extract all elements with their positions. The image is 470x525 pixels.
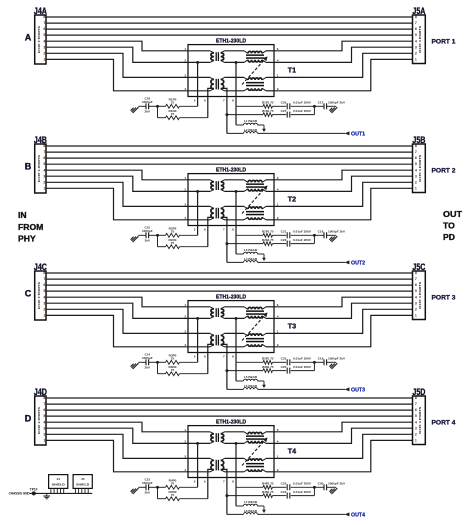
svg-text:1: 1 — [415, 439, 417, 443]
node OUT1 (off-page arrow) — [345, 131, 366, 137]
node junction C15/R2P0/R2N0 — [156, 234, 159, 237]
svg-text:J4C: J4C — [34, 262, 48, 272]
label CHASSIS GND — [9, 491, 31, 495]
common-mode choke T3a — [210, 307, 224, 319]
wire center-tap pin8 to R3P1 / L5 — [235, 317, 238, 381]
ground (earth) left of C16 — [131, 107, 139, 113]
connector J5 SHIELD — [73, 475, 92, 494]
ground (earth) left of C14 — [131, 363, 139, 369]
svg-text:C27: C27 — [281, 109, 287, 113]
common-mode choke T2b — [210, 206, 224, 219]
wire J4D pin 4 to T4 primary (pin 1) — [46, 422, 188, 432]
svg-text:RJ45 4 PORTS: RJ45 4 PORTS — [37, 282, 41, 309]
pin numbers J4C 8..1 — [43, 271, 45, 317]
svg-text:R1P1 75: R1P1 75 — [262, 101, 274, 105]
wire T1 secondary (pin 6) to J5A pin 2 — [274, 53, 413, 77]
transformer winding T3 pair 1 — [244, 307, 266, 319]
svg-text:3: 3 — [43, 426, 45, 430]
connector J4A (RJ45 A side from PHY) — [34, 6, 48, 64]
svg-text:0.01uF 250V: 0.01uF 250V — [293, 109, 312, 113]
connector J4C (RJ45 C side from PHY) — [34, 262, 48, 320]
common-mode choke T1a — [210, 51, 224, 63]
svg-text:L5 BEAD: L5 BEAD — [244, 375, 258, 379]
wire T2 secondary (pin 8) to J5B pin 4 — [274, 170, 413, 180]
connector J4B (RJ45 B side from PHY) — [34, 135, 47, 193]
wire T2 internal row 1 — [188, 179, 274, 181]
svg-text:SHIELD: SHIELD — [76, 482, 90, 486]
svg-text:C21: C21 — [281, 230, 287, 234]
svg-text:1: 1 — [277, 330, 279, 334]
svg-text:7: 7 — [43, 277, 45, 281]
svg-text:4: 4 — [43, 420, 45, 424]
svg-text:C25: C25 — [281, 365, 287, 369]
node junction C23/C24/C30 — [313, 486, 316, 489]
ground (chassis) — [43, 493, 50, 498]
svg-text:5: 5 — [194, 98, 196, 102]
svg-text:9: 9 — [277, 87, 279, 91]
svg-text:CHASSIS GND: CHASSIS GND — [9, 491, 31, 495]
label T2 — [288, 194, 296, 203]
wire T1 secondary (pin 5) to J5A pin 1 — [274, 59, 413, 90]
svg-text:OUT: OUT — [443, 209, 463, 219]
wire J4C pin 1 to T3 primary (pin 4) — [46, 315, 188, 346]
resistor R4P0 75 — [158, 479, 198, 490]
svg-text:1: 1 — [43, 314, 45, 318]
pin numbers J4B 8..1 — [43, 144, 45, 190]
wire center-tap pin6 to R1N0 — [208, 88, 214, 117]
pin numbers T1 right edge — [277, 47, 279, 91]
coupling arrow T1 (dashed) — [242, 57, 268, 85]
svg-text:75: 75 — [171, 482, 175, 486]
svg-text:75: 75 — [171, 493, 175, 497]
svg-text:OUT1: OUT1 — [351, 131, 365, 137]
capacitor C26 0.01uF 250V — [273, 235, 315, 246]
pin numbers T4 right edge — [277, 428, 279, 472]
capacitor C25 0.01uF 250V — [273, 362, 315, 373]
svg-text:C20: C20 — [281, 101, 287, 105]
ground arrow after L3 — [262, 254, 266, 261]
coupling arrow T4 (dashed) — [242, 438, 268, 466]
pin numbers J5C 8..1 — [415, 271, 417, 317]
wire center-tap pin6 to R4N0 — [208, 469, 214, 498]
wire T1 secondary (pin 7) to J5A pin 3 — [274, 47, 413, 62]
wire center-tap pin7 to R4N1 / L8 — [221, 469, 229, 514]
svg-text:ETH1-230LD: ETH1-230LD — [216, 419, 246, 425]
node junction C16/R1P0/R1N0 — [156, 105, 159, 108]
svg-text:9: 9 — [277, 343, 279, 347]
svg-text:7: 7 — [415, 21, 417, 25]
svg-text:3: 3 — [43, 301, 45, 305]
wire T4 secondary (pin 8) to J5D pin 4 — [274, 422, 413, 432]
svg-text:1: 1 — [184, 303, 186, 307]
svg-text:75: 75 — [171, 230, 175, 234]
svg-text:4: 4 — [184, 343, 186, 347]
wire center-tap pin5 to R1P0 — [196, 61, 199, 106]
svg-text:2: 2 — [43, 432, 45, 436]
wire J4D pin 7 to J5D pin 7 — [46, 403, 413, 405]
transformer winding T2 pair 2 — [244, 206, 266, 219]
transformer winding T1 pair 2 — [244, 77, 266, 90]
node junction C14/R3P0/R3N0 — [156, 361, 159, 364]
ground arrow after L5 — [262, 381, 266, 388]
pin numbers T4 left edge — [184, 428, 186, 472]
svg-text:R3P1 75: R3P1 75 — [262, 357, 274, 361]
wire J4A pin 6 to J5A pin 6 — [46, 28, 413, 30]
common-mode choke T3b — [210, 333, 224, 346]
svg-text:1: 1 — [277, 74, 279, 78]
svg-text:2: 2 — [184, 440, 186, 444]
svg-text:1000pF 2kV: 1000pF 2kV — [328, 482, 346, 486]
pin numbers T3 left edge — [184, 303, 186, 347]
svg-text:9: 9 — [277, 216, 279, 220]
wire T1 secondary (pin 8) to J5A pin 4 — [274, 41, 413, 51]
connector J5B (RJ45 B side to PD) — [412, 135, 425, 193]
wire center-tap pin7 to R3N1 / L6 — [221, 344, 229, 389]
capacitor C22 0.01uF 250V — [273, 357, 315, 366]
wire T4 internal row 2 — [188, 442, 274, 444]
svg-text:4: 4 — [184, 216, 186, 220]
svg-text:J4A: J4A — [34, 6, 48, 16]
svg-text:D: D — [25, 413, 32, 423]
pin numbers T1 bottom edge — [194, 98, 234, 102]
wire J4D pin 1 to T4 primary (pin 4) — [46, 440, 188, 471]
capacitor C27 0.01uF 250V — [273, 106, 315, 117]
wire center-tap pin8 to R1P1 / L1 — [235, 61, 238, 125]
capacitor C16 1000pF 2kV — [138, 97, 157, 114]
wire T3 secondary (pin 7) to J5C pin 3 — [274, 303, 413, 318]
capacitor C23 0.01uF 250V — [273, 482, 315, 491]
svg-text:6: 6 — [43, 283, 45, 287]
label T3 — [288, 321, 296, 330]
svg-text:6: 6 — [43, 408, 45, 412]
capacitor C20 0.01uF 250V — [273, 101, 315, 110]
pin numbers T3 right edge — [277, 303, 279, 347]
svg-text:C18: C18 — [318, 230, 324, 234]
wire J4D pin 8 to J5D pin 8 — [46, 397, 413, 399]
svg-text:4: 4 — [415, 420, 417, 424]
svg-text:8: 8 — [415, 144, 417, 148]
svg-text:0.01uF 250V: 0.01uF 250V — [293, 482, 312, 486]
wire J4B pin 4 to T2 primary (pin 1) — [46, 170, 188, 180]
svg-text:5: 5 — [415, 33, 417, 37]
svg-text:2kV: 2kV — [145, 239, 151, 243]
svg-text:RJ45 4 PORTS: RJ45 4 PORTS — [37, 155, 41, 182]
wire T1 internal row 1 — [188, 50, 274, 52]
svg-text:7: 7 — [43, 402, 45, 406]
pin numbers T4 bottom edge — [194, 479, 234, 483]
svg-text:2: 2 — [415, 307, 417, 311]
resistor R2N1 75 — [227, 238, 274, 246]
svg-text:2: 2 — [184, 188, 186, 192]
coupling arrow T2 (dashed) — [242, 186, 268, 214]
svg-text:L3 BEAD: L3 BEAD — [244, 248, 258, 252]
svg-text:ETH1-230LD: ETH1-230LD — [216, 38, 246, 44]
capacitor C19 1000pF 2kV — [314, 357, 346, 366]
svg-text:3: 3 — [415, 426, 417, 430]
svg-text:4: 4 — [415, 39, 417, 43]
label PORT 1 — [432, 39, 456, 46]
svg-text:L1 BEAD: L1 BEAD — [244, 119, 258, 123]
svg-text:7: 7 — [43, 150, 45, 154]
svg-text:1: 1 — [43, 439, 45, 443]
svg-text:RJ45 4 PORTS: RJ45 4 PORTS — [418, 155, 422, 182]
svg-text:1: 1 — [184, 428, 186, 432]
wire T3 secondary (pin 5) to J5C pin 1 — [274, 315, 413, 346]
svg-text:5: 5 — [194, 227, 196, 231]
transformer module T1 box ETH1-230LD — [188, 38, 274, 96]
wire T2 secondary (pin 5) to J5B pin 1 — [274, 188, 413, 220]
svg-text:T4: T4 — [288, 446, 296, 455]
wire chassis gnd bus — [30, 492, 93, 494]
wire J4D pin 3 to T4 primary (pin 2) — [46, 428, 188, 443]
svg-text:OUT3: OUT3 — [351, 387, 365, 393]
wire T3 internal row 2 — [188, 317, 274, 319]
label T4 — [288, 446, 296, 455]
svg-text:6: 6 — [204, 98, 206, 102]
wire center-tap pin7 to R1N1 / L2 — [221, 88, 229, 133]
svg-text:ETH1-230LD: ETH1-230LD — [216, 167, 246, 173]
resistor R3N0 75 — [158, 362, 208, 375]
svg-text:75: 75 — [171, 357, 175, 361]
svg-text:7: 7 — [415, 150, 417, 154]
transformer module T2 box ETH1-230LD — [188, 167, 274, 225]
wire J4A pin 7 to J5A pin 7 — [46, 22, 413, 24]
resistor R1N0 75 — [158, 106, 208, 119]
label PORT 2 — [432, 168, 456, 175]
test point TP10 — [30, 487, 38, 495]
node OUT4 (off-page arrow) — [345, 512, 366, 518]
svg-text:1000pF: 1000pF — [142, 481, 153, 485]
svg-text:3: 3 — [184, 330, 186, 334]
wire center-tap pin7 to R2N1 / L4 — [221, 217, 229, 262]
svg-text:T2: T2 — [288, 194, 296, 203]
svg-text:6: 6 — [415, 27, 417, 31]
svg-text:RJ45 4 PORTS: RJ45 4 PORTS — [418, 26, 422, 53]
connector J5C (RJ45 C side to PD) — [412, 262, 426, 320]
svg-text:A: A — [25, 32, 32, 42]
svg-text:5: 5 — [43, 289, 45, 293]
svg-text:4: 4 — [184, 468, 186, 472]
resistor R2P0 75 — [158, 227, 198, 238]
wire J4D pin 6 to J5D pin 6 — [46, 409, 413, 411]
wire J4C pin 5 to J5C pin 5 — [46, 290, 413, 292]
svg-text:1: 1 — [277, 455, 279, 459]
svg-text:R1N1 75: R1N1 75 — [262, 109, 274, 113]
ground (earth) left of C15 — [131, 236, 139, 242]
resistor R4N0 75 — [158, 487, 208, 500]
svg-text:1: 1 — [277, 203, 279, 207]
wire center-tap pin8 to R2P1 / L3 — [235, 190, 238, 254]
connector J5D (RJ45 D side to PD) — [412, 387, 425, 445]
svg-text:R3N1 75: R3N1 75 — [262, 365, 274, 369]
wire T3 internal row 1 — [188, 306, 274, 308]
ground arrow after L7 — [262, 506, 266, 513]
wire J4A pin 5 to J5A pin 5 — [46, 34, 413, 36]
svg-text:PORT 1: PORT 1 — [432, 39, 456, 46]
wire J4C pin 3 to T3 primary (pin 2) — [46, 303, 188, 318]
svg-text:8: 8 — [232, 227, 234, 231]
wire J4B pin 1 to T2 primary (pin 4) — [46, 188, 188, 220]
wire J4D pin 2 to T4 primary (pin 3) — [46, 434, 188, 458]
svg-text:8: 8 — [43, 271, 45, 275]
label section A — [25, 32, 32, 42]
resistor R4P1 75 — [236, 482, 274, 490]
connector J5A (RJ45 A side to PD) — [412, 6, 426, 64]
svg-text:4: 4 — [277, 59, 279, 63]
svg-text:4: 4 — [43, 295, 45, 299]
capacitor C15 1000pF 2kV — [138, 226, 157, 243]
svg-text:8: 8 — [43, 15, 45, 19]
svg-text:8: 8 — [232, 354, 234, 358]
svg-text:3: 3 — [184, 203, 186, 207]
svg-text:J5: J5 — [81, 477, 85, 481]
svg-text:6: 6 — [277, 176, 279, 180]
capacitor C14 1000pF 2kV — [138, 353, 157, 370]
wire J4A pin 4 to T1 primary (pin 1) — [46, 41, 188, 51]
wire T1 internal row 4 — [188, 90, 274, 92]
svg-text:4: 4 — [415, 295, 417, 299]
svg-text:6: 6 — [415, 283, 417, 287]
svg-text:6: 6 — [415, 156, 417, 160]
wire center-tap pin5 to R4P0 — [196, 442, 199, 487]
svg-text:8: 8 — [415, 396, 417, 400]
wire T1 internal row 2 — [188, 61, 274, 63]
svg-text:1: 1 — [184, 176, 186, 180]
wire T4 secondary (pin 5) to J5D pin 1 — [274, 440, 413, 471]
svg-text:L2 BEAD: L2 BEAD — [244, 128, 258, 132]
svg-text:7: 7 — [223, 98, 225, 102]
svg-text:R4P1 75: R4P1 75 — [262, 482, 274, 486]
svg-text:6: 6 — [204, 227, 206, 231]
svg-text:RJ45 4 PORTS: RJ45 4 PORTS — [418, 282, 422, 309]
ground (earth) left of C13 — [131, 488, 139, 494]
svg-text:3: 3 — [184, 455, 186, 459]
svg-text:C26: C26 — [281, 238, 287, 242]
node OUT3 (off-page arrow) — [345, 387, 366, 393]
svg-text:L8 BEAD: L8 BEAD — [244, 509, 258, 513]
svg-text:8: 8 — [232, 98, 234, 102]
transformer winding T1 pair 1 — [244, 51, 266, 63]
capacitor C21 0.01uF 250V — [273, 230, 315, 239]
svg-text:8: 8 — [415, 271, 417, 275]
svg-text:1: 1 — [43, 58, 45, 62]
svg-text:RJ45 4 PORTS: RJ45 4 PORTS — [37, 26, 41, 53]
svg-text:6: 6 — [204, 479, 206, 483]
svg-text:1000pF 2kV: 1000pF 2kV — [328, 101, 346, 105]
wire T3 internal row 4 — [188, 346, 274, 348]
svg-text:4: 4 — [277, 188, 279, 192]
svg-text:1: 1 — [184, 47, 186, 51]
svg-text:7: 7 — [223, 479, 225, 483]
svg-text:J4: J4 — [56, 477, 60, 481]
wire J4B pin 2 to T2 primary (pin 3) — [46, 182, 188, 206]
svg-text:2: 2 — [415, 51, 417, 55]
wire J4C pin 4 to T3 primary (pin 1) — [46, 297, 188, 307]
wire T3 secondary (pin 6) to J5C pin 2 — [274, 309, 413, 333]
svg-text:IN: IN — [18, 210, 27, 220]
ground (earth) after C30 — [329, 488, 337, 494]
svg-text:R2N1 75: R2N1 75 — [262, 238, 274, 242]
common-mode choke T1b — [210, 77, 224, 90]
svg-text:FROM: FROM — [18, 222, 43, 232]
wire J4C pin 8 to J5C pin 8 — [46, 272, 413, 274]
wire center-tap pin6 to R2N0 — [208, 217, 214, 246]
svg-text:3: 3 — [43, 45, 45, 49]
svg-text:2: 2 — [184, 315, 186, 319]
svg-text:2kV: 2kV — [145, 491, 151, 495]
svg-text:0.01uF 250V: 0.01uF 250V — [293, 238, 312, 242]
svg-text:6: 6 — [204, 354, 206, 358]
ground (earth) after C19 — [329, 363, 337, 369]
transformer module T3 box ETH1-230LD — [188, 294, 274, 352]
svg-text:6: 6 — [43, 27, 45, 31]
label PORT 3 — [432, 295, 456, 302]
svg-text:0.01uF 250V: 0.01uF 250V — [293, 230, 312, 234]
wire T3 secondary (pin 8) to J5C pin 4 — [274, 297, 413, 307]
svg-text:4: 4 — [184, 87, 186, 91]
inductor L4 BEAD — [227, 257, 345, 263]
svg-text:OUT4: OUT4 — [351, 512, 365, 518]
svg-text:9: 9 — [277, 468, 279, 472]
svg-text:1000pF: 1000pF — [142, 356, 153, 360]
node junction C13/R4P0/R4N0 — [156, 486, 159, 489]
resistor R3N1 75 — [227, 365, 274, 373]
pin numbers J5A 8..1 — [415, 15, 417, 61]
svg-text:3: 3 — [184, 74, 186, 78]
wire T1 internal row 3 — [188, 76, 274, 78]
transformer winding T4 pair 2 — [244, 458, 266, 471]
node junction C22/C25/C19 — [313, 361, 316, 364]
svg-text:5: 5 — [415, 162, 417, 166]
common-mode choke T4b — [210, 458, 224, 471]
svg-text:1000pF 2kV: 1000pF 2kV — [328, 230, 346, 234]
transformer winding T4 pair 1 — [244, 432, 266, 444]
label IN FROM PHY — [18, 210, 43, 243]
wire J4A pin 8 to J5A pin 8 — [46, 16, 413, 18]
svg-text:1000pF: 1000pF — [142, 229, 153, 233]
node OUT2 (off-page arrow) — [345, 260, 366, 266]
wire T2 internal row 2 — [188, 190, 274, 192]
wire J4D pin 5 to J5D pin 5 — [46, 415, 413, 417]
svg-text:4: 4 — [415, 168, 417, 172]
svg-text:7: 7 — [223, 227, 225, 231]
connector J4D (RJ45 D side from PHY) — [34, 387, 47, 445]
svg-text:3: 3 — [415, 301, 417, 305]
label T1 — [288, 65, 296, 74]
inductor L5 BEAD — [236, 375, 264, 381]
ground (earth) after C17 — [329, 107, 337, 113]
svg-text:6: 6 — [415, 408, 417, 412]
wire T2 internal row 3 — [188, 205, 274, 207]
pin numbers T2 left edge — [184, 176, 186, 220]
resistor R1P1 75 — [236, 101, 274, 109]
pin numbers J5B 8..1 — [415, 144, 417, 190]
svg-text:0.01uF 250V: 0.01uF 250V — [293, 101, 312, 105]
inductor L1 BEAD — [236, 119, 264, 125]
wire T3 internal row 3 — [188, 332, 274, 334]
wire T2 secondary (pin 6) to J5B pin 2 — [274, 182, 413, 206]
svg-text:R4N1 75: R4N1 75 — [262, 490, 274, 494]
node junction C20/C27/C17 — [313, 105, 316, 108]
ground (earth) after C18 — [329, 236, 337, 242]
svg-text:0.01uF 250V: 0.01uF 250V — [293, 357, 312, 361]
capacitor C30 1000pF 2kV — [314, 482, 346, 491]
wire J4B pin 3 to T2 primary (pin 2) — [46, 176, 188, 191]
svg-text:5: 5 — [43, 162, 45, 166]
svg-text:RJ45 4 PORTS: RJ45 4 PORTS — [37, 407, 41, 434]
common-mode choke T2a — [210, 180, 224, 192]
svg-text:1: 1 — [415, 314, 417, 318]
